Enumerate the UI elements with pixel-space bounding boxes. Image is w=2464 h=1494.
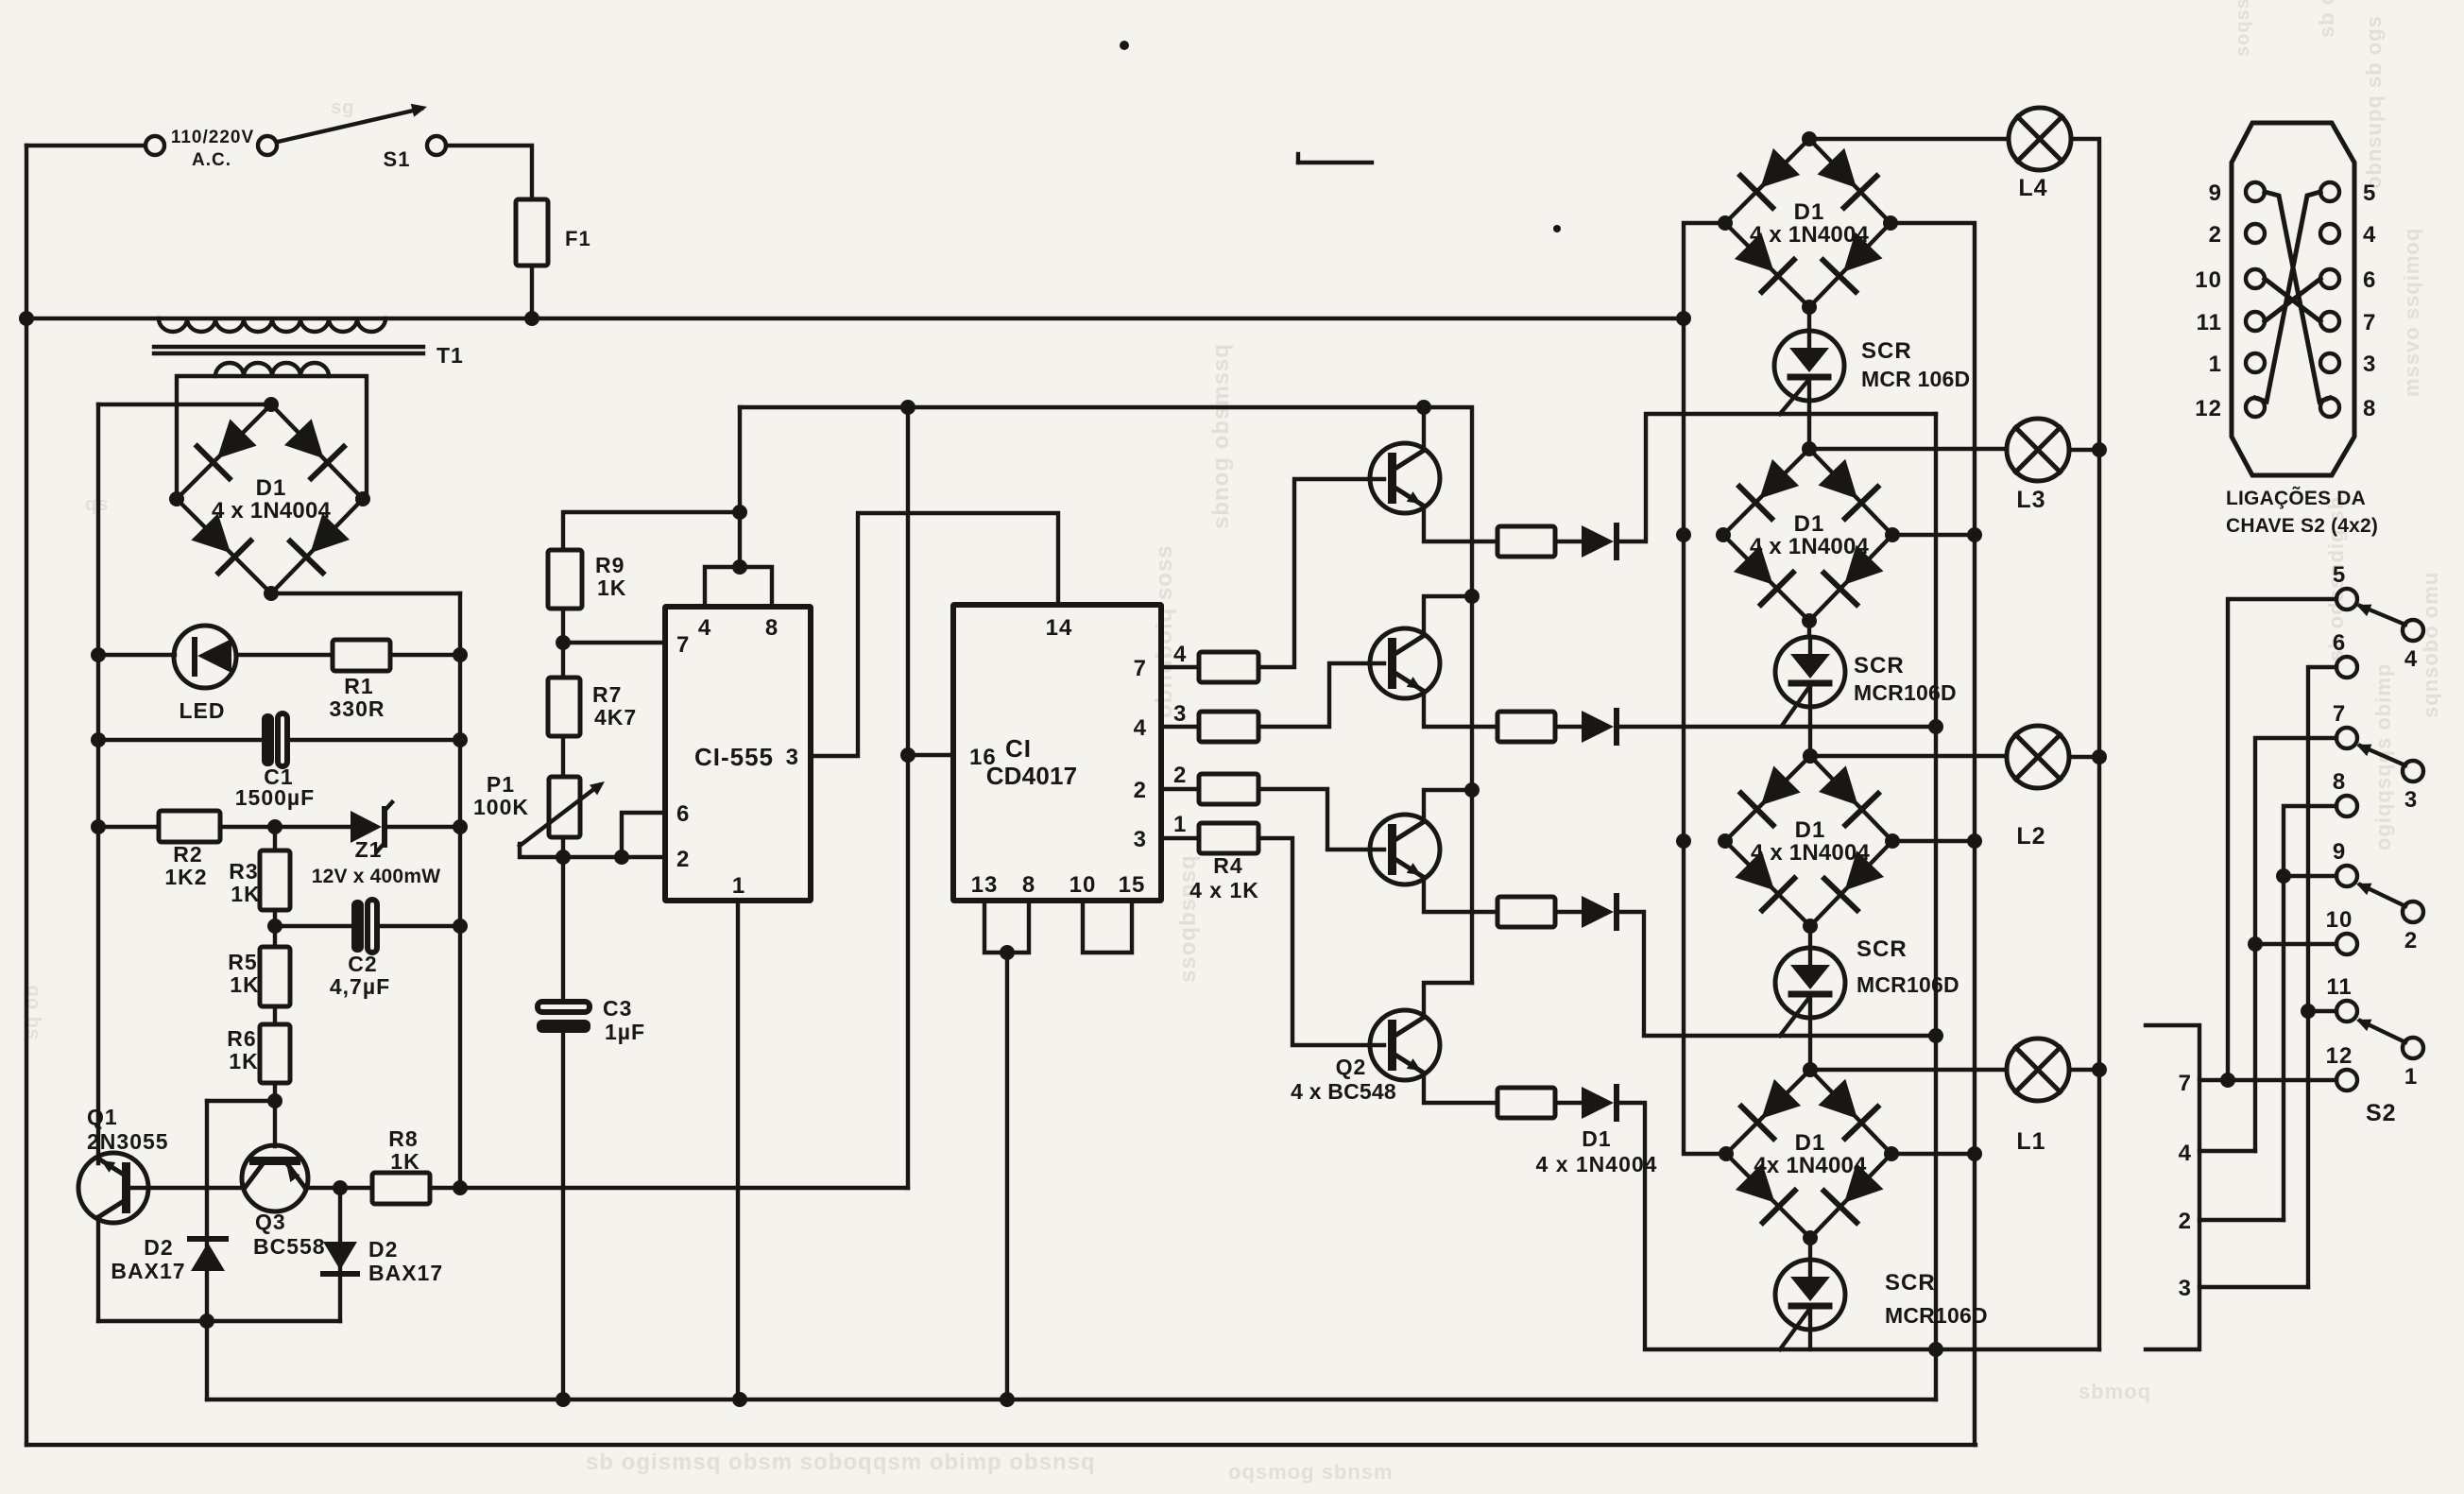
junction R3/C2/R5 node: [267, 919, 282, 934]
svg-text:L2: L2: [2016, 823, 2045, 850]
svg-text:1K: 1K: [390, 1149, 419, 1174]
svg-text:8: 8: [2333, 769, 2346, 795]
svg-text:4x 1N4004: 4x 1N4004: [1754, 1153, 1867, 1178]
junction R8/+12V rail: [453, 1180, 468, 1195]
svg-text:D1: D1: [256, 475, 287, 501]
svg-text:A.C.: A.C.: [192, 150, 231, 170]
svg-text:Q3: Q3: [255, 1210, 286, 1234]
svg-text:1: 1: [732, 873, 745, 899]
junction Q3/D2b node: [333, 1180, 348, 1195]
svg-text:obnuboiq soss: obnuboiq soss: [1152, 544, 1177, 718]
wire rail2 top: [98, 403, 271, 406]
lamp L2: [2007, 726, 2069, 788]
wire C3 top: [561, 857, 565, 1002]
wire Q1/D2 bottom: [98, 1319, 340, 1323]
svg-text:2: 2: [1134, 778, 1147, 803]
resistor R4b: [1161, 725, 1199, 729]
junction SCR2 cathode/bridge3 top: [1803, 748, 1818, 764]
thyristor SCR3 MCR106D: [1808, 926, 1812, 948]
wire row 11: [2308, 1009, 2336, 1013]
svg-text:1500µF: 1500µF: [235, 785, 315, 810]
wire terminal 8 to row 9: [2284, 806, 2336, 1220]
wire Q2a emitter: [1424, 507, 1497, 541]
wire R9 top to supply: [563, 512, 740, 550]
svg-text:2: 2: [1173, 763, 1187, 788]
svg-text:SCR: SCR: [1854, 653, 1905, 678]
svg-text:3: 3: [2404, 787, 2418, 813]
wire gate tie rail: [1934, 414, 1938, 1400]
svg-text:R2: R2: [173, 842, 202, 867]
svg-text:1K2: 1K2: [164, 865, 207, 889]
junction right rail/bridge2: [1967, 527, 1982, 542]
svg-text:CI-555: CI-555: [694, 743, 774, 771]
svg-text:4: 4: [1134, 715, 1147, 741]
wire main AC line: [26, 317, 1684, 320]
terminal AC input left: [145, 136, 164, 155]
wire Q2d emitter: [1424, 1074, 1497, 1103]
svg-text:BC558: BC558: [253, 1234, 326, 1259]
resistor R2 1K2: [159, 811, 220, 842]
svg-text:4: 4: [2179, 1141, 2192, 1166]
resistor R (gate 3) and diode D1c: [1497, 897, 1555, 927]
transistor Q2d BC548: [1370, 1010, 1440, 1080]
wire 555 pin 1 to ground: [736, 901, 740, 1400]
resistor R (gate 1) and diode D1a: [1497, 526, 1555, 557]
svg-text:6: 6: [2363, 267, 2376, 293]
wire Q2b emitter: [1424, 693, 1497, 727]
svg-text:Q2: Q2: [1336, 1055, 1367, 1079]
svg-text:8: 8: [1022, 872, 1035, 898]
svg-text:8: 8: [765, 615, 779, 641]
svg-text:4 x 1N4004: 4 x 1N4004: [1751, 840, 1871, 866]
wire pin 13-8 to ground: [1005, 953, 1009, 1400]
wire gate1 jog: [1617, 414, 1936, 541]
svg-text:sb oinsm ob ossq: sb oinsm ob ossq: [2315, 0, 2338, 38]
switch S2 lever 3-7: [2360, 746, 2405, 765]
resistor R5 1K: [260, 947, 290, 1006]
svg-text:sg: sg: [331, 97, 354, 118]
wire bracket row 4: [2199, 1149, 2255, 1153]
connector S2 pinout outline: [2232, 123, 2354, 475]
wire left AC rail: [25, 146, 28, 1445]
wire R8 to 4017 reset line: [430, 1186, 908, 1190]
junction pin6 branch: [614, 850, 629, 865]
svg-text:4 x 1K: 4 x 1K: [1189, 878, 1259, 902]
wire F1 to AC line: [530, 266, 534, 318]
bridge rectifier D1 (module 4): [1726, 1070, 1810, 1154]
wire bottom AC return rail: [26, 1443, 1976, 1447]
junction F1/AC line: [524, 311, 539, 326]
wire secondary box: [177, 376, 367, 498]
wire Q1 base to Q3: [130, 1186, 244, 1190]
svg-text:4: 4: [2404, 646, 2418, 672]
junction R6/Q3/D2 node: [267, 1093, 282, 1108]
switch S2 terminals: [2336, 589, 2357, 610]
switch S2 lever 2-9: [2360, 884, 2405, 906]
wire bridge2 right: [1892, 533, 1975, 537]
wire L4 to return rail: [2071, 139, 2099, 1349]
wire bridge1 right: [1891, 223, 1975, 1445]
junction C1/rail: [453, 732, 468, 747]
switch S2 lever 4-5: [2360, 606, 2405, 625]
thyristor SCR1 MCR106D: [1807, 307, 1811, 331]
svg-text:6: 6: [2333, 630, 2346, 656]
junction R2/R3/Z1 node: [267, 819, 282, 834]
lamp L4: [2009, 108, 2071, 170]
svg-text:Q1: Q1: [87, 1105, 118, 1129]
svg-text:2: 2: [2179, 1209, 2192, 1234]
svg-text:4 x 1N4004: 4 x 1N4004: [212, 498, 332, 524]
svg-text:11: 11: [2197, 310, 2222, 335]
junction feed rail/bridge2: [1676, 527, 1691, 542]
wire R9 to pin7 node: [561, 609, 565, 643]
wire pins 4-8 bracket: [705, 567, 772, 607]
wire node to D2a: [207, 1099, 275, 1103]
wire R2 row left: [98, 825, 159, 829]
junction bottom wire: [199, 1314, 214, 1329]
wire terminal 5 to row 12: [2228, 599, 2336, 1080]
svg-text:CD4017: CD4017: [986, 762, 1078, 790]
junction right rail/bridge4: [1967, 1146, 1982, 1161]
svg-text:R7: R7: [592, 682, 622, 707]
svg-text:3: 3: [2363, 352, 2376, 377]
junction C3/ground: [556, 1392, 571, 1407]
svg-text:F1: F1: [565, 227, 591, 250]
wire Q1 emitter down: [96, 1217, 100, 1321]
svg-text:7: 7: [1134, 656, 1147, 681]
svg-text:15: 15: [1119, 872, 1146, 898]
wire Q2b collector: [1424, 596, 1472, 634]
stray scan mark: [1298, 161, 1372, 164]
bridge rectifier D1 (module 2): [1723, 449, 1809, 535]
wire terminal 7 to row 10: [2255, 738, 2336, 1151]
wire ground rail: [207, 1398, 1936, 1401]
wire bridge3 top to L2: [1810, 754, 2007, 758]
svg-text:10: 10: [2195, 267, 2222, 293]
wire L3 right: [2069, 448, 2099, 452]
thyristor SCR2 MCR106D: [1807, 621, 1811, 637]
capacitor C2 4,7uF: [351, 900, 364, 953]
svg-text:1µF: 1µF: [605, 1020, 645, 1044]
junction right rail/bridge3: [1967, 833, 1982, 849]
wire Q2d collector: [1424, 983, 1472, 1016]
wire terminal 6 to row 11: [2308, 667, 2336, 1287]
resistor R9 1K: [548, 550, 582, 609]
wire R6 to Q3 base node: [273, 1083, 277, 1146]
wire down to ground rail: [205, 1321, 209, 1400]
wire +12V rail: [458, 593, 462, 1189]
svg-text:D2: D2: [144, 1235, 173, 1260]
resistor R (gate 4) and diode D1d: [1497, 1088, 1555, 1118]
svg-text:5: 5: [2333, 562, 2346, 588]
resistor R3 1K: [273, 827, 277, 850]
wire bridge4 right: [1895, 1152, 1975, 1156]
junction Z1/rail: [453, 819, 468, 834]
svg-text:L1: L1: [2016, 1128, 2045, 1155]
svg-text:D1: D1: [1794, 511, 1825, 537]
junction LED row left: [91, 647, 106, 662]
svg-text:10: 10: [2326, 907, 2353, 933]
svg-text:2: 2: [2209, 222, 2222, 248]
svg-text:P1: P1: [487, 772, 515, 797]
svg-text:12: 12: [2195, 396, 2222, 421]
svg-text:L3: L3: [2016, 487, 2045, 513]
wire LED row left: [98, 653, 175, 657]
bridge rectifier D1 (module 3): [1725, 756, 1810, 841]
svg-text:mssvo ssqimoq: mssvo ssqimoq: [2400, 228, 2423, 397]
svg-text:1: 1: [2209, 352, 2222, 377]
svg-text:R8: R8: [388, 1126, 418, 1151]
wire R3 to C2 node: [273, 910, 277, 947]
wire gate3 jog: [1617, 912, 1936, 1036]
wire bracket row 3: [2199, 1285, 2308, 1289]
wire S2 link 9-8: [2265, 192, 2330, 402]
wire R1 to rail: [390, 653, 460, 657]
junction bus/Q2c collector: [1464, 782, 1480, 798]
junction R1/rail: [453, 647, 468, 662]
svg-text:D2: D2: [368, 1237, 398, 1262]
svg-text:sbnog obsmssq: sbnog obsmssq: [1208, 343, 1234, 529]
svg-text:8: 8: [2363, 396, 2376, 421]
diode D2 BAX17 (right): [338, 1188, 342, 1321]
svg-text:2N3055: 2N3055: [87, 1129, 169, 1154]
svg-text:T1: T1: [436, 343, 464, 368]
svg-text:6: 6: [676, 801, 690, 827]
svg-text:7: 7: [2179, 1071, 2192, 1096]
svg-text:9: 9: [2333, 839, 2346, 865]
svg-text:R4: R4: [1213, 853, 1242, 878]
svg-text:4: 4: [1173, 642, 1187, 667]
svg-text:R1: R1: [344, 674, 373, 698]
bridge rectifier D1 (module 1): [1725, 139, 1809, 223]
svg-text:2: 2: [2404, 928, 2418, 953]
junction L3/return rail: [2092, 442, 2107, 457]
svg-text:3: 3: [1134, 827, 1147, 852]
wire R4b to Q2b base: [1258, 663, 1384, 727]
svg-text:CHAVE S2 (4x2): CHAVE S2 (4x2): [2226, 515, 2378, 537]
svg-text:4 x BC548: 4 x BC548: [1291, 1079, 1396, 1104]
junction row10: [2248, 936, 2263, 952]
wire 4017 supply rail: [906, 407, 910, 1188]
svg-text:D1: D1: [1795, 1130, 1826, 1156]
capacitor C3 1uF: [538, 1002, 590, 1012]
junction row12: [2220, 1073, 2235, 1088]
svg-text:4: 4: [2363, 222, 2376, 248]
svg-text:R9: R9: [595, 553, 625, 577]
svg-text:3: 3: [786, 745, 799, 770]
svg-text:110/220V: 110/220V: [171, 128, 254, 147]
wire C3 to ground rail: [561, 1033, 565, 1400]
svg-text:1: 1: [2404, 1064, 2418, 1090]
wire 555 pin 3 to 4017 pin 14: [811, 513, 1058, 756]
wire Q2a collector: [1422, 407, 1426, 449]
svg-text:1K: 1K: [230, 972, 259, 997]
wire Q2c collector: [1424, 790, 1472, 820]
svg-text:4 x 1N4004: 4 x 1N4004: [1750, 534, 1870, 559]
svg-text:MCR106D: MCR106D: [1857, 972, 1959, 997]
junction row9: [2276, 868, 2291, 884]
svg-text:sb ogismsq obsm soboqqsm obimp: sb ogismsq obsm soboqqsm obimp obsnsq: [586, 1450, 1096, 1475]
connector S2 pins: [2246, 182, 2265, 201]
junction R2 row left: [91, 819, 106, 834]
junction C1 row left: [91, 732, 106, 747]
svg-text:5: 5: [2363, 180, 2376, 206]
resistor R6 1K: [260, 1024, 290, 1083]
resistor R8 1K: [372, 1173, 430, 1204]
svg-text:L4: L4: [2018, 175, 2047, 201]
svg-text:ssoqbsnsq: ssoqbsnsq: [1175, 854, 1201, 983]
transistor Q2a BC548: [1370, 443, 1440, 513]
wire gate4 jog to bottom rail: [1617, 1103, 2099, 1349]
wire R7 to P1: [561, 736, 565, 777]
junction 555 pin1/ground: [732, 1392, 747, 1407]
wire Q3 emitter to R8: [305, 1186, 372, 1190]
svg-text:11: 11: [2326, 974, 2352, 1000]
wire LED to R1: [236, 653, 333, 657]
wire row 9: [2284, 874, 2336, 878]
svg-text:3: 3: [1173, 701, 1187, 727]
svg-text:obnsupq sb ogs: obnsupq sb ogs: [2362, 15, 2386, 189]
resistor R4a: [1161, 665, 1199, 669]
wire +V bus: [740, 407, 1472, 983]
svg-text:C2: C2: [348, 952, 377, 976]
svg-text:7: 7: [2333, 701, 2346, 727]
junction L2/return rail: [2092, 749, 2107, 764]
svg-text:SCR: SCR: [1857, 936, 1908, 962]
wire row 12 from bracket: [2199, 1078, 2336, 1082]
wire S2 link 11-6: [2265, 279, 2320, 321]
svg-text:S1: S1: [384, 147, 411, 171]
svg-text:sbmoq: sbmoq: [2079, 1380, 2151, 1403]
svg-text:14: 14: [1046, 615, 1073, 641]
svg-text:4K7: 4K7: [594, 705, 637, 730]
junction bracket: [732, 559, 747, 575]
fuse F1: [516, 199, 548, 266]
wire R4c to Q2c base: [1258, 789, 1384, 850]
svg-text:S2: S2: [2366, 1100, 2397, 1126]
wire bridge output bottom: [271, 592, 460, 595]
wire R4d to Q2d base: [1258, 838, 1384, 1045]
svg-text:BAX17: BAX17: [111, 1259, 185, 1283]
svg-text:SCR: SCR: [1885, 1270, 1936, 1296]
svg-text:LIGAÇÕES DA: LIGAÇÕES DA: [2226, 487, 2366, 509]
svg-text:4 x 1N4004: 4 x 1N4004: [1750, 222, 1870, 248]
wire C2 to rail: [378, 924, 460, 928]
wire R2 to node: [220, 825, 351, 829]
svg-text:10: 10: [1069, 872, 1097, 898]
svg-text:4,7µF: 4,7µF: [330, 974, 390, 999]
transistor Q1 2N3055: [78, 1153, 148, 1223]
op-amp U1 CI-555: [665, 607, 811, 901]
capacitor C1 1500uF: [262, 713, 274, 766]
wire bracket row 2: [2199, 1218, 2284, 1222]
wire bridge2 top to L3: [1809, 447, 2007, 451]
svg-text:MCR106D: MCR106D: [1885, 1303, 1988, 1328]
wire AC input top: [26, 144, 145, 147]
wire pin 16: [908, 753, 953, 757]
wire S2 link 10-7: [2265, 279, 2320, 321]
terminal AC input right: [258, 136, 277, 155]
wire pin 7: [563, 641, 665, 644]
wire pins 13-8 bracket: [984, 901, 1029, 953]
wire row 10: [2255, 942, 2336, 946]
resistor R4d: [1161, 836, 1199, 840]
svg-text:SCR: SCR: [1861, 338, 1912, 364]
junction L1/return rail: [2092, 1062, 2107, 1077]
junction bus/4017 supply: [900, 400, 915, 415]
svg-text:C3: C3: [603, 996, 632, 1021]
wire Q2c emitter: [1424, 879, 1497, 912]
junction feed rail/bridge3: [1676, 833, 1691, 849]
diode D2 BAX17 (left): [205, 1101, 209, 1321]
svg-text:1K: 1K: [597, 575, 626, 600]
svg-text:oqsmog sbnsm: oqsmog sbnsm: [1228, 1460, 1394, 1484]
svg-text:R3: R3: [229, 859, 258, 884]
svg-text:100K: 100K: [473, 795, 529, 819]
junction left rail / AC line: [19, 311, 34, 326]
wire C2 row: [275, 924, 353, 928]
switch S2 lever 1-11: [2360, 1021, 2405, 1042]
svg-text:7: 7: [676, 632, 690, 658]
wire pin 6: [622, 813, 665, 857]
wire R5 to R6: [273, 1006, 277, 1024]
resistor R (gate 2) and diode D1b: [1497, 712, 1555, 742]
wire Z1 to rail: [386, 825, 460, 829]
zener Z1 12V x 400mW: [351, 811, 382, 843]
svg-text:D1: D1: [1582, 1126, 1611, 1151]
wire P1 wiper down: [520, 844, 665, 857]
svg-text:12V x 400mW: 12V x 400mW: [312, 866, 440, 887]
wire rail2 vertical: [96, 404, 100, 1163]
svg-text:4: 4: [698, 615, 711, 641]
lamp L3: [2007, 419, 2069, 481]
svg-text:sqnsobo omu: sqnsobo omu: [2419, 572, 2442, 718]
junction supply/pins 4-8: [732, 505, 747, 520]
svg-text:soqssoqi ob: soqssoqi ob: [2233, 0, 2253, 57]
svg-text:R5: R5: [228, 950, 257, 974]
switch S2 bracket: [2146, 1025, 2199, 1349]
svg-text:2: 2: [676, 847, 690, 872]
svg-text:1K: 1K: [229, 1049, 258, 1073]
resistor R7 4K7: [561, 643, 565, 678]
svg-text:D1: D1: [1794, 199, 1825, 225]
svg-text:Z1: Z1: [355, 837, 383, 862]
potentiometer P1 100K: [549, 777, 580, 837]
wire pins 10-15 bracket: [1083, 901, 1132, 953]
thyristor SCR4 MCR106D: [1808, 1238, 1812, 1260]
wire C1 to rail: [288, 738, 460, 742]
wire P1 to pin2 row: [561, 837, 565, 857]
switch S2 lever contacts: [2403, 620, 2423, 641]
svg-text:12: 12: [2326, 1043, 2353, 1069]
junction pin 16: [900, 747, 915, 763]
svg-text:CI: CI: [1005, 734, 1032, 763]
junction P1/pin2 row: [556, 850, 571, 865]
junction gate3/tie rail: [1928, 1028, 1943, 1043]
svg-text:MCR 106D: MCR 106D: [1861, 367, 1970, 391]
junction row11: [2301, 1004, 2316, 1019]
svg-text:7: 7: [2363, 310, 2376, 335]
svg-text:4 x 1N4004: 4 x 1N4004: [1536, 1152, 1658, 1176]
transistor Q3 BC558: [242, 1145, 308, 1211]
wire L1 right: [2069, 1068, 2099, 1072]
svg-text:LED: LED: [180, 698, 226, 723]
LED: [174, 626, 236, 688]
svg-text:1: 1: [1173, 812, 1187, 837]
wire bridge4 top to L1: [1810, 1068, 2007, 1072]
wire gate2: [1617, 725, 1936, 729]
svg-text:330R: 330R: [330, 696, 385, 721]
